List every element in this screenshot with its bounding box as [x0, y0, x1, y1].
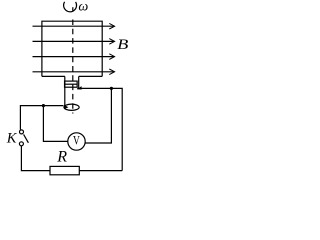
wire to voltmeter left — [43, 106, 67, 142]
wire switch to bottom rail — [21, 146, 50, 171]
field line 4 — [33, 71, 115, 73]
wire bottom right (resistor to right rail) — [79, 170, 122, 172]
svg-text:ω: ω — [78, 0, 88, 14]
field line 3 — [33, 56, 115, 58]
junction dot left — [42, 104, 45, 107]
resistor R box — [50, 166, 79, 174]
junction dot right — [110, 87, 113, 90]
svg-text:R: R — [56, 148, 67, 165]
switch K contact lower — [19, 142, 23, 146]
voltmeter V — [68, 133, 85, 150]
field line 2 — [33, 40, 115, 42]
field line 4 arrowhead — [109, 69, 114, 75]
svg-text:B: B — [117, 36, 128, 53]
coil bottom edge left segment — [42, 75, 65, 77]
field line 1 — [33, 25, 115, 27]
field line 2 arrowhead — [109, 39, 114, 45]
coil frame — [42, 21, 102, 76]
wire top right (brush to right rail) — [77, 88, 122, 170]
field line 1 arrowhead — [109, 23, 114, 29]
slip ring lower (ellipse) — [64, 104, 79, 110]
svg-text:V: V — [73, 134, 80, 148]
wire top left (brush to left rail) — [20, 106, 63, 130]
switch K contact upper — [20, 130, 24, 134]
coil lead right — [78, 76, 80, 88]
slip ring upper (cylinder) — [65, 81, 78, 87]
svg-text:K: K — [6, 130, 18, 146]
field line 3 arrowhead — [109, 54, 114, 60]
brush arrow left (on lower ring) — [64, 105, 68, 110]
brush arrow right (on upper ring) — [77, 86, 82, 89]
switch K lever — [24, 134, 29, 142]
coil lead left — [64, 76, 66, 105]
coil bottom edge right segment — [79, 75, 103, 77]
wire inner right (to voltmeter) — [85, 88, 111, 143]
rotation arrow (angular velocity) — [64, 2, 77, 12]
axis (dashed rotation axis) — [72, 7, 74, 11]
